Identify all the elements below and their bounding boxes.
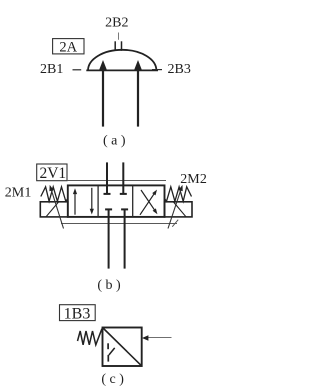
- right position cross arrow A: [140, 194, 154, 215]
- input arrowhead: [142, 335, 148, 340]
- sensor diagonal: [103, 328, 141, 366]
- bottom port line R: [124, 209, 126, 268]
- solenoid 2M1 box: [40, 202, 68, 217]
- svg-text:2B1: 2B1: [40, 62, 63, 77]
- port 2B2 stem left: [114, 41, 116, 51]
- svg-text:2B3: 2B3: [168, 62, 191, 77]
- position divider left: [97, 185, 99, 217]
- leader line from 2B2: [118, 33, 120, 40]
- switch contact lower stub: [107, 355, 109, 362]
- blocked port T bar top A: [104, 193, 111, 195]
- port 2B2 stem right: [121, 41, 123, 51]
- sensor 1B3 square: [103, 328, 142, 367]
- svg-text:2B2: 2B2: [105, 16, 128, 31]
- upper rail line: [67, 180, 166, 182]
- right return spring: [165, 187, 192, 202]
- sensor spring: [78, 329, 102, 345]
- right flow line of 2A: [137, 71, 139, 127]
- svg-text:( c ): ( c ): [101, 372, 124, 387]
- svg-text:( a ): ( a ): [103, 133, 126, 148]
- port dash 2B3: [152, 69, 162, 71]
- solenoid 2M2 slash: [174, 202, 187, 217]
- component tag box 2V1: [37, 164, 67, 181]
- svg-text:2M1: 2M1: [5, 186, 32, 201]
- lower rail end tick: [172, 220, 178, 227]
- svg-text:1B3: 1B3: [64, 305, 91, 322]
- svg-text:( b ): ( b ): [97, 278, 121, 293]
- blocked port T bar bottom P: [105, 208, 112, 210]
- left up arrowhead: [99, 60, 106, 70]
- left position up flow arrow: [74, 193, 76, 215]
- input arrow line: [148, 337, 172, 339]
- position divider right: [132, 185, 134, 217]
- switch contact upper stub: [107, 343, 109, 349]
- top port line B: [122, 162, 124, 194]
- component tag box 2A: [53, 39, 84, 54]
- svg-text:2A: 2A: [59, 39, 77, 55]
- solenoid 2M1 slash: [46, 202, 59, 217]
- left flow line of 2A: [102, 71, 104, 127]
- solenoid 2M1 proportional arrow: [51, 188, 64, 229]
- left position down flow arrow: [91, 188, 93, 210]
- dome bottom line: [86, 69, 158, 71]
- top port line A: [106, 162, 108, 194]
- dome body of gripper 2A: [88, 50, 156, 71]
- blocked port T bar top B: [120, 193, 127, 195]
- component tag box 1B3: [60, 305, 96, 321]
- blocked port T bar bottom R: [121, 208, 128, 210]
- right position cross arrow B: [141, 190, 155, 210]
- port dash 2B1: [73, 69, 82, 71]
- lower rail line: [61, 223, 177, 225]
- svg-text:2V1: 2V1: [39, 165, 66, 182]
- right up arrowhead: [134, 60, 141, 70]
- bottom port line P: [108, 209, 110, 268]
- valve 2V1 body: [68, 185, 165, 217]
- solenoid 2M2 proportional arrow: [168, 188, 182, 229]
- left return spring: [41, 187, 68, 202]
- solenoid 2M2 box: [165, 202, 193, 217]
- svg-text:2M2: 2M2: [180, 172, 207, 187]
- switch contact lever: [109, 348, 115, 355]
